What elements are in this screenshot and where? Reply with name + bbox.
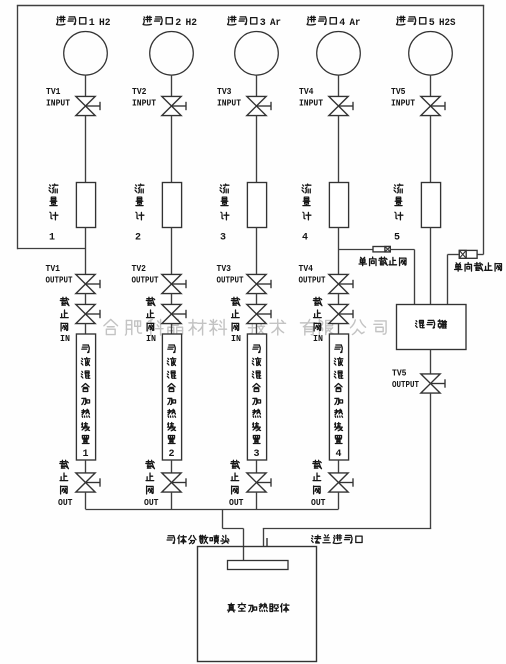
wire: circle 2 to valve TV2 INPUT	[171, 75, 173, 97]
wire: column4 branch to check valve 1	[339, 249, 374, 251]
label 截止阀 OUT 3	[229, 460, 244, 508]
wire: check valve 2 to mixing tank	[448, 255, 460, 305]
label 截止阀 OUT 1	[58, 460, 73, 508]
svg-text:IN: IN	[146, 334, 156, 344]
svg-text:1: 1	[89, 18, 95, 29]
label TV3 OUTPUT	[217, 263, 244, 285]
label TV4 INPUT	[299, 86, 323, 109]
stop valve OUT 1	[76, 473, 100, 492]
svg-text:OUTPUT: OUTPUT	[46, 274, 73, 285]
svg-text:1: 1	[49, 233, 55, 244]
svg-text:OUT: OUT	[311, 498, 326, 508]
heater unit 气液混合加热装置4	[329, 334, 348, 460]
label TV5 INPUT	[391, 86, 415, 109]
gas dispersion nozzle bar	[228, 561, 289, 570]
wire: valve TV4 INPUT to flow meter 4	[338, 116, 340, 183]
svg-text:TV3: TV3	[217, 86, 232, 97]
wire: stop valve IN 2 to heater 2	[171, 324, 173, 335]
gas inlet circle 1	[64, 32, 108, 76]
svg-text:INPUT: INPUT	[217, 98, 241, 109]
svg-text:OUTPUT: OUTPUT	[217, 274, 244, 285]
svg-text:OUTPUT: OUTPUT	[132, 274, 159, 285]
svg-text:5: 5	[394, 233, 400, 244]
vacuum heating chamber 真空加热腔体	[198, 547, 317, 662]
node: gas inlet label 进气口1 H2	[57, 16, 111, 29]
label TV2 OUTPUT	[132, 263, 159, 285]
wire: valve TV5 OUTPUT down, across to flange inlet	[263, 393, 431, 547]
svg-text:TV1: TV1	[46, 86, 61, 97]
wire: stop valve IN 4 to heater 4	[338, 324, 340, 335]
label 单向截止阀 (check valve 1)	[359, 257, 406, 265]
stop valve IN 2	[162, 304, 186, 323]
svg-text:Ar: Ar	[270, 18, 281, 29]
svg-text:1: 1	[82, 449, 88, 460]
label 截止阀 OUT 2	[144, 460, 159, 508]
svg-text:TV5: TV5	[391, 86, 406, 97]
stop valve OUT 3	[247, 473, 271, 492]
wire: stop valve OUT 4 to manifold	[338, 492, 340, 509]
check valve 1 (单向截止阀) body	[373, 247, 390, 252]
stop valve IN 1	[76, 304, 100, 323]
wire: valve TV1 INPUT to flow meter 1	[85, 116, 87, 183]
label TV4 OUTPUT	[299, 263, 326, 285]
wire: stop valve IN 3 to heater 3	[256, 324, 258, 335]
valve TV1 INPUT	[76, 96, 100, 115]
stop valve OUT 4	[329, 473, 353, 492]
svg-text:OUT: OUT	[229, 498, 244, 508]
svg-text:TV5: TV5	[392, 368, 407, 379]
svg-text:4: 4	[335, 449, 341, 460]
wire: flow meter 4 to valve TV4 OUTPUT	[338, 228, 340, 275]
wire: valve TV2 INPUT to flow meter 2	[171, 116, 173, 183]
label TV1 INPUT	[46, 86, 70, 109]
wire: heater 3 to stop valve OUT 3	[256, 460, 258, 473]
svg-text:2: 2	[175, 18, 181, 29]
valve TV2 INPUT	[162, 96, 186, 115]
label 混气罐	[416, 320, 447, 328]
wire: heater 1 to stop valve OUT 1	[85, 460, 87, 473]
heater unit 气液混合加热装置1	[76, 334, 95, 460]
valve TV4 INPUT	[329, 96, 353, 115]
wire: circle 4 to valve TV4 INPUT	[338, 75, 340, 97]
svg-text:5: 5	[429, 18, 435, 29]
svg-text:3: 3	[220, 233, 226, 244]
label 真空加热腔体	[228, 603, 289, 612]
label 气液混合加热装置4	[334, 345, 342, 460]
svg-text:OUTPUT: OUTPUT	[299, 274, 326, 285]
flow meter 1 body	[76, 183, 95, 228]
wire: stop valve OUT 2 to manifold	[171, 492, 173, 509]
node: gas inlet label 进气口5 H2S	[397, 16, 456, 29]
node: gas inlet label 进气口4 Ar	[307, 16, 360, 29]
label 截止阀 IN 1	[60, 297, 70, 344]
wire: valve TV3 INPUT to flow meter 3	[256, 116, 258, 183]
svg-text:OUTPUT: OUTPUT	[392, 379, 419, 390]
svg-text:IN: IN	[313, 334, 323, 344]
valve TV5 INPUT	[421, 96, 445, 115]
svg-text:H2: H2	[186, 18, 198, 29]
svg-text:TV2: TV2	[132, 263, 147, 274]
wire: stop valve IN 1 to heater 1	[85, 324, 87, 335]
svg-text:TV1: TV1	[46, 263, 61, 274]
svg-text:OUT: OUT	[144, 498, 159, 508]
svg-text:3: 3	[260, 18, 266, 29]
svg-text:H2: H2	[99, 18, 111, 29]
gas inlet circle 5	[409, 32, 453, 76]
label 截止阀 IN 3	[231, 297, 241, 344]
flow meter 3 body	[247, 183, 266, 228]
wire: valve TV5 INPUT to flow meter 5	[430, 116, 432, 183]
wire: check valve 1 to mixing tank	[390, 250, 414, 305]
svg-text:IN: IN	[60, 334, 70, 344]
wire: stop valve OUT 3 to manifold	[256, 492, 258, 509]
label 法兰进气口	[312, 535, 363, 544]
svg-text:INPUT: INPUT	[46, 98, 70, 109]
svg-text:TV4: TV4	[299, 263, 314, 274]
wire: heater 4 to stop valve OUT 4	[338, 460, 340, 473]
svg-text:INPUT: INPUT	[391, 98, 415, 109]
label TV5 OUTPUT	[392, 368, 419, 390]
flow meter 5 body	[421, 183, 440, 228]
flow meter 2 body	[162, 183, 181, 228]
valve TV3 INPUT	[247, 96, 271, 115]
gas inlet circle 3	[235, 32, 279, 76]
wire: flow meter 2 to valve TV2 OUTPUT	[171, 228, 173, 275]
wire: stop valve OUT 1 to manifold	[85, 492, 87, 509]
valve TV1 OUTPUT	[76, 274, 100, 293]
check valve 2 (单向截止阀) body	[459, 250, 477, 258]
wire: circle 5 to valve TV5 INPUT	[430, 75, 432, 97]
gas inlet circle 2	[150, 32, 194, 76]
svg-text:IN: IN	[231, 334, 241, 344]
wire: loop from column1 via outer border to check valve 2	[17, 6, 484, 255]
label 截止阀 IN 2	[146, 297, 156, 344]
svg-text:2: 2	[135, 233, 141, 244]
wire: valve TV2 OUTPUT to stop valve IN 2	[171, 294, 173, 305]
wire: output manifold	[86, 509, 339, 511]
stop valve IN 3	[247, 304, 271, 323]
label 单向截止阀 (check valve 2)	[455, 263, 502, 271]
label 流量计3 (flow meter)	[220, 184, 229, 243]
label 截止阀 OUT 4	[311, 460, 326, 508]
wire: heater 2 to stop valve OUT 2	[171, 460, 173, 473]
flange tick (法兰进气口)	[266, 538, 268, 547]
valve TV2 OUTPUT	[162, 274, 186, 293]
wire: valve TV3 OUTPUT to stop valve IN 3	[256, 294, 258, 305]
svg-text:TV4: TV4	[299, 86, 314, 97]
wire: circle 1 to valve TV1 INPUT	[85, 75, 87, 97]
valve TV5 OUTPUT	[421, 374, 445, 393]
svg-text:Ar: Ar	[350, 18, 361, 29]
heater unit 气液混合加热装置2	[162, 334, 181, 460]
wire: valve TV4 OUTPUT to stop valve IN 4	[338, 294, 340, 305]
wire: circle 3 to valve TV3 INPUT	[256, 75, 258, 97]
flow meter 4 body	[329, 183, 348, 228]
heater unit 气液混合加热装置3	[247, 334, 266, 460]
svg-text:3: 3	[253, 449, 259, 460]
label 气液混合加热装置3	[252, 345, 260, 460]
valve TV3 OUTPUT	[247, 274, 271, 293]
svg-text:H2S: H2S	[439, 18, 456, 29]
label 流量计2 (flow meter)	[135, 184, 144, 243]
watermark company name 合肥科晶材料技术有限公司	[104, 319, 386, 335]
wire: flow meter 1 to valve TV1 OUTPUT	[85, 228, 87, 275]
svg-text:INPUT: INPUT	[299, 98, 323, 109]
label 截止阀 IN 4	[313, 297, 323, 344]
label 流量计4 (flow meter)	[302, 184, 311, 243]
node: gas inlet label 进气口2 H2	[143, 16, 197, 29]
wire: flow meter 5 down to mixing tank	[430, 228, 432, 305]
gas inlet circle 4	[317, 32, 361, 76]
wire: mixing tank to valve TV5 OUTPUT	[430, 350, 432, 375]
label 流量计1 (flow meter)	[49, 184, 58, 243]
node: gas inlet label 进气口3 Ar	[228, 16, 281, 29]
label TV1 OUTPUT	[46, 263, 73, 285]
svg-text:TV2: TV2	[132, 86, 147, 97]
stop valve OUT 2	[162, 473, 186, 492]
wire: valve TV1 OUTPUT to stop valve IN 1	[85, 294, 87, 305]
label 气液混合加热装置2	[167, 345, 175, 460]
svg-text:OUT: OUT	[58, 498, 73, 508]
svg-text:4: 4	[339, 18, 345, 29]
label 流量计5 (flow meter)	[394, 184, 403, 243]
label TV2 INPUT	[132, 86, 156, 109]
svg-text:INPUT: INPUT	[132, 98, 156, 109]
valve TV4 OUTPUT	[329, 274, 353, 293]
svg-text:TV3: TV3	[217, 263, 232, 274]
mixing tank 混气罐	[397, 305, 467, 350]
svg-text:4: 4	[302, 233, 308, 244]
label 气体分散喷头	[167, 535, 229, 543]
stop valve IN 4	[329, 304, 353, 323]
label 气液混合加热装置1	[81, 345, 89, 460]
svg-text:2: 2	[168, 449, 174, 460]
label TV3 INPUT	[217, 86, 241, 109]
wire: flow meter 3 to valve TV3 OUTPUT	[256, 228, 258, 275]
wire: manifold drop to nozzle	[223, 510, 244, 561]
